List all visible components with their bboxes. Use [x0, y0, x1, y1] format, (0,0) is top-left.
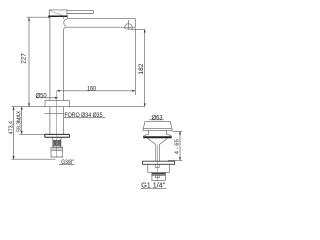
faucet body left edge [49, 17, 51, 100]
drain body inner notch [156, 164, 160, 167]
hose nut G3/8 [51, 147, 63, 157]
drain gasket dome [143, 135, 172, 137]
drain tailpiece [152, 172, 166, 180]
aerator axis line [128, 20, 130, 30]
center line faucet [56, 91, 58, 158]
arrow 160 left [57, 90, 60, 92]
drain cap inner line [143, 127, 172, 129]
base plate Ø50 [45, 100, 69, 106]
washer flange [45, 134, 70, 137]
deck lower line [45, 112, 65, 114]
aerator dome [125, 24, 133, 28]
drain center line [157, 145, 159, 181]
funnel taper below washer [52, 138, 62, 141]
dim 473.4 bottom ext [12, 158, 56, 160]
dim 4-65 bottom ext [168, 159, 182, 161]
drain tail inner notch [156, 175, 160, 178]
arrow 4-65 bottom [179, 157, 181, 160]
svg-text:4 - 65: 4 - 65 [174, 138, 180, 154]
arrowheads [13, 18, 182, 161]
svg-text:Ø63: Ø63 [152, 114, 164, 121]
arrow 59.3 bottom [21, 131, 23, 134]
arrow O50 [55, 97, 58, 99]
drain stem [156, 145, 160, 162]
arrow 227 bottom [28, 103, 30, 106]
G3/8 underline [59, 163, 75, 165]
hose nut thread ticks [53, 148, 61, 150]
svg-text:227: 227 [21, 53, 28, 64]
lever bar [67, 11, 94, 14]
svg-text:FORO Ø34 Ø35: FORO Ø34 Ø35 [65, 111, 104, 119]
under-deck shank right [63, 107, 65, 135]
arrow 473.4 bottom [13, 156, 15, 159]
dim 227 line [28, 18, 30, 107]
dim 4-65 top ext [173, 130, 183, 132]
svg-text:473,4: 473,4 [8, 121, 14, 134]
svg-text:59,3MAX: 59,3MAX [17, 110, 23, 131]
arrow 59.3 top [21, 107, 23, 110]
faucet handle base U-top [49, 10, 67, 16]
drain tail thread lines [152, 173, 166, 175]
drain neck band [148, 130, 166, 134]
arrow 160 right [132, 90, 135, 92]
body-spout fillet [64, 27, 67, 30]
FORO underline [64, 117, 105, 119]
drain gasket dark band [143, 136, 172, 138]
drain body top flange [143, 161, 175, 164]
svg-text:160: 160 [87, 86, 97, 92]
dim 59.3 bottom ext [20, 133, 45, 135]
drain top cap [143, 121, 172, 130]
dim 160 line [57, 90, 136, 92]
handle diagonal [50, 10, 63, 15]
dim 4-65 line [179, 131, 181, 160]
deck line [12, 106, 145, 108]
drain body [148, 164, 170, 172]
arrow 227 top [28, 18, 30, 21]
drain: O63 underline [149, 119, 164, 121]
svg-text:Ø50: Ø50 [36, 92, 48, 99]
drain funnel [148, 138, 168, 144]
handle base lip [49, 17, 50, 18]
spout bottom line [67, 26, 136, 28]
spout right end [134, 19, 136, 28]
G1 1/4 underline [141, 187, 167, 189]
spout top line [67, 16, 135, 18]
arrow 182 bottom [144, 103, 146, 106]
dim 59.3 line [21, 107, 23, 135]
arrow 182 top [144, 29, 146, 32]
O50 leader underline [35, 97, 56, 99]
dim 227 top ext [27, 16, 50, 18]
svg-text:182: 182 [138, 63, 145, 74]
handle base bottom thick line [48, 15, 67, 17]
dim 182 line [131, 29, 145, 106]
under-deck shank left [49, 107, 51, 135]
arrow 473.4 top [13, 107, 15, 110]
knurled nut [53, 141, 61, 148]
svg-text:G3/8": G3/8" [61, 160, 74, 167]
arrow 4-65 top [179, 131, 181, 134]
aerator base line [125, 28, 133, 29]
ext spout tip vertical [134, 28, 136, 95]
svg-text:G1 1/4": G1 1/4" [141, 181, 166, 190]
faucet body right edge [63, 16, 65, 100]
spout rounded left end [64, 20, 67, 26]
dim 473.4 line [13, 107, 15, 160]
